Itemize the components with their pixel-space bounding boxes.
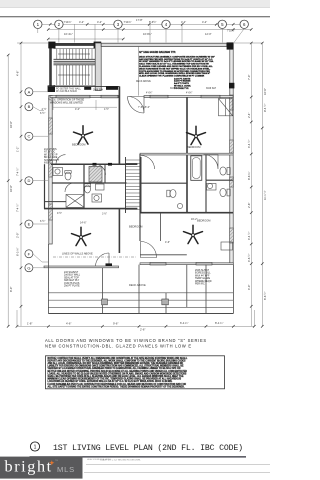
svg-text:6'-3 ⅛": 6'-3 ⅛" <box>16 248 20 256</box>
post top-left <box>48 42 55 49</box>
svg-text:C: C <box>27 134 30 139</box>
door arc at wall A <box>128 97 145 114</box>
bath hall wall x=105 <box>104 164 106 183</box>
svg-text:7'10⅞": 7'10⅞" <box>124 20 132 24</box>
svg-text:4'-6": 4'-6" <box>16 71 20 76</box>
left wall windows <box>49 118 53 220</box>
svg-text:7'-4 ½": 7'-4 ½" <box>16 204 20 212</box>
bath left closet wall <box>44 164 46 208</box>
svg-text:6'-8 ½": 6'-8 ½" <box>263 292 267 300</box>
left exterior wall <box>49 96 52 245</box>
svg-text:2846 SLH: 2846 SLH <box>93 90 104 92</box>
toilet 2 <box>84 184 90 193</box>
wall y=154 right <box>140 153 233 155</box>
svg-text:1: 1 <box>34 444 37 450</box>
deck horizontals <box>48 299 233 301</box>
post stair bottom-left <box>48 85 55 92</box>
svg-text:DECK ABOVE: DECK ABOVE <box>136 80 151 83</box>
grid bubble 5 <box>218 20 226 28</box>
svg-text:W/ 2x10 BLK SOLID: W/ 2x10 BLK SOLID <box>56 91 77 93</box>
svg-text:A: A <box>28 89 31 94</box>
post top-right <box>227 42 234 49</box>
svg-text:14'-6": 14'-6" <box>80 222 86 225</box>
bath door arc 1 <box>95 164 106 175</box>
svg-text:6 ½": 6 ½" <box>40 219 45 223</box>
svg-text:4'-2": 4'-2" <box>97 20 102 24</box>
wall y=267 left segment <box>44 266 119 268</box>
svg-text:7'-4 ½": 7'-4 ½" <box>16 168 20 176</box>
svg-text:4'-2": 4'-2" <box>181 20 186 24</box>
svg-text:LIABILITY FOR ERRORS OR OMISSI: LIABILITY FOR ERRORS OR OMISSIONS ONCE C… <box>48 365 185 368</box>
svg-text:10'-6": 10'-6" <box>263 88 267 95</box>
svg-text:ALL SITE SAFETY DURING THE ENT: ALL SITE SAFETY DURING THE ENTIRE CONSTR… <box>48 385 185 388</box>
svg-text:FLOOR ASSEMBLIES PER PLAN. CON: FLOOR ASSEMBLIES PER PLAN. CONTRACTOR RE… <box>48 383 187 386</box>
bath top wall y=164 <box>51 163 137 165</box>
svg-text:8'-4 ¾": 8'-4 ¾" <box>215 321 223 325</box>
stair up arrow <box>58 54 90 75</box>
text block lower left <box>64 271 81 288</box>
wall A left segment <box>50 96 119 98</box>
grid bubble F <box>25 250 48 262</box>
toilet 4 <box>220 188 230 196</box>
text block lower right <box>195 269 212 286</box>
stair treads lower run <box>54 65 96 86</box>
stair landing <box>54 59 96 65</box>
fan bedroom 4 <box>184 225 203 243</box>
svg-text:NOTICE: CONTRACTOR SHALL VERIF: NOTICE: CONTRACTOR SHALL VERIFY ALL DIME… <box>48 357 189 360</box>
fan bedroom 3 <box>72 227 91 245</box>
svg-text:B: B <box>28 104 31 109</box>
title bubble <box>30 442 39 451</box>
deck area edge line <box>138 46 140 95</box>
closet divider <box>160 213 162 241</box>
door threshold blocks <box>84 87 91 90</box>
interior dim texts <box>42 106 198 244</box>
svg-text:4'-0¼": 4'-0¼" <box>186 92 193 95</box>
grid bubble 1 <box>34 20 42 28</box>
svg-text:2x6 PT PLATE: 2x6 PT PLATE <box>64 285 80 288</box>
shower with X <box>66 195 84 208</box>
svg-text:ALL DOORS AND WINDOWS TO BE V: ALL DOORS AND WINDOWS TO BE VIWINCO BRAN… <box>45 338 207 343</box>
svg-text:2'-6": 2'-6" <box>140 328 145 332</box>
left ticks <box>7 42 22 328</box>
svg-text:4 ½": 4 ½" <box>42 107 47 111</box>
svg-text:4'-4 ½": 4'-4 ½" <box>247 232 251 240</box>
bath center wall x=84 <box>83 164 85 208</box>
disclaimer box <box>46 356 225 389</box>
svg-text:PER IRC: PER IRC <box>195 283 205 286</box>
threshold blocks <box>106 263 113 266</box>
stair right wall <box>95 43 101 91</box>
svg-text:42" HIGH GUARD RAILINGS TYP.: 42" HIGH GUARD RAILINGS TYP. <box>139 51 176 54</box>
svg-text:MINIMUM CLEAR OPENING REQUIREM: MINIMUM CLEAR OPENING REQUIREMENTS OF TH… <box>48 378 182 381</box>
svg-text:AND ALL LOCAL ORDINANCES. DO N: AND ALL LOCAL ORDINANCES. DO NOT SCALE D… <box>48 362 184 365</box>
svg-text:16'-2": 16'-2" <box>191 218 197 221</box>
svg-text:4'-0": 4'-0" <box>247 285 251 290</box>
door arc bedroom3 <box>96 253 110 267</box>
footer rule 1 <box>86 464 270 466</box>
svg-text:4'-2": 4'-2" <box>79 20 84 24</box>
windows lower right wall <box>150 262 166 265</box>
windows in wall A <box>56 95 220 98</box>
toilet 1 <box>65 171 71 180</box>
svg-text:BEDROOM: BEDROOM <box>187 145 200 149</box>
svg-text:12'-0": 12'-0" <box>205 32 212 36</box>
svg-text:2'-8": 2'-8" <box>247 203 251 208</box>
svg-text:4'-0": 4'-0" <box>145 106 150 109</box>
bathtub <box>191 156 202 181</box>
svg-text:BETTER UNLESS NOTED OTHERWISE.: BETTER UNLESS NOTED OTHERWISE. PROVIDE S… <box>48 370 188 373</box>
svg-text:11'-1 ½": 11'-1 ½" <box>263 190 267 200</box>
svg-text:9'-6": 9'-6" <box>113 322 118 326</box>
vanity counters <box>53 168 63 176</box>
left rotated dim texts <box>9 71 20 292</box>
svg-text:LOCATIONS AS DEFINED BY CODE.: LOCATIONS AS DEFINED BY CODE. EXTERIOR W… <box>48 380 173 383</box>
hall bath wall <box>140 182 187 184</box>
grid bubble 6 <box>240 20 248 28</box>
svg-text:9'-4 ½": 9'-4 ½" <box>263 104 267 112</box>
wall y=264 right segment <box>140 263 233 265</box>
hall door arc <box>141 156 155 170</box>
grid bubble D <box>25 177 48 185</box>
post right wall mid <box>229 83 234 89</box>
top dimension baseline <box>42 24 251 39</box>
svg-text:CLEAR OPENING TYP. FLASHING CO: CLEAR OPENING TYP. FLASHING COMPATIBLE W… <box>139 75 205 78</box>
top exterior wall <box>101 43 227 46</box>
svg-text:TO CODE TYP.: TO CODE TYP. <box>174 88 189 90</box>
svg-text:3 ½": 3 ½" <box>102 212 107 216</box>
svg-text:LOADS. ALL HEADERS TO BE (2) 2: LOADS. ALL HEADERS TO BE (2) 2x10 UNLESS… <box>48 372 187 375</box>
sink 2 <box>94 195 99 200</box>
svg-text:4'-0": 4'-0" <box>75 108 80 111</box>
grid bubble E <box>25 219 48 228</box>
grid bubble G <box>25 264 44 272</box>
bright MLS logo box <box>0 457 83 479</box>
grid bubble A <box>25 88 48 96</box>
svg-text:16'-4¼": 16'-4¼" <box>64 32 73 36</box>
grid bubble 4 <box>162 20 170 28</box>
orange spark <box>49 460 54 465</box>
svg-text:4'-6": 4'-6" <box>165 241 170 244</box>
deck verticals <box>48 244 233 314</box>
svg-text:MLS: MLS <box>57 465 75 474</box>
svg-text:1ST LIVING LEVEL PLAN (2ND FL.: 1ST LIVING LEVEL PLAN (2ND FL. IBC CODE) <box>53 443 243 453</box>
wall y=212.7 lower right <box>140 212 233 214</box>
svg-text:6 ½": 6 ½" <box>40 111 45 115</box>
top gray band <box>0 0 270 8</box>
closet wall lower mid <box>140 254 187 256</box>
svg-text:6'-4 ¼": 6'-4 ¼" <box>180 321 188 325</box>
svg-text:4'-0¼": 4'-0¼" <box>146 92 153 95</box>
wall A right segment <box>144 96 233 98</box>
dim ticks top <box>47 23 253 40</box>
svg-text:4'-4 ½": 4'-4 ½" <box>247 140 251 148</box>
svg-text:16'-8": 16'-8" <box>9 185 13 192</box>
text block left mid <box>44 148 60 165</box>
extension drops <box>17 310 254 326</box>
svg-text:4 ½": 4 ½" <box>104 107 109 111</box>
dresser lower-right <box>221 242 233 250</box>
deck posts <box>102 299 108 305</box>
bath mid wall y=183 <box>52 182 127 184</box>
bath wall y=201 <box>45 201 67 203</box>
svg-text:E: E <box>28 222 31 227</box>
svg-text:G: G <box>27 265 30 270</box>
svg-text:4'-6 ½": 4'-6 ½" <box>247 254 251 262</box>
stair left wall <box>49 43 52 92</box>
svg-text:9 ½": 9 ½" <box>57 211 62 215</box>
post stair top-right <box>94 42 102 49</box>
svg-text:BEDROOM: BEDROOM <box>197 219 210 223</box>
sink rect bath 2 <box>96 184 105 190</box>
corridor wall x=140 <box>139 154 141 213</box>
grid drop lines <box>38 24 244 42</box>
svg-text:SHALL BE PROVIDED PER CODE IN: SHALL BE PROVIDED PER CODE IN ALL SLEEPI… <box>48 375 185 378</box>
svg-text:WINDOWS WILL BE LIMITED: WINDOWS WILL BE LIMITED <box>50 101 83 104</box>
svg-text:8'-0": 8'-0" <box>9 287 13 292</box>
svg-text:DECK ABOVE: DECK ABOVE <box>129 283 146 287</box>
svg-text:2'-4": 2'-4" <box>247 113 251 118</box>
toilet 3 <box>220 167 230 175</box>
top dimension texts <box>64 18 235 36</box>
sink 1 <box>55 169 60 174</box>
svg-text:BEDROOM: BEDROOM <box>129 225 142 229</box>
interior wall x=187 upper <box>186 97 188 213</box>
svg-text:7'10⅞": 7'10⅞" <box>64 20 72 24</box>
svg-text:NEW CONSTRUCTION-DBL. GLAZED P: NEW CONSTRUCTION-DBL. GLAZED PANELS WITH… <box>45 343 192 348</box>
right exterior wall <box>230 49 233 263</box>
title underline <box>30 456 247 458</box>
svg-text:VERIFIED BY A LICENSED STRUCTU: VERIFIED BY A LICENSED STRUCTURAL ENGINE… <box>48 367 181 370</box>
grid bubble 3 <box>114 20 122 28</box>
svg-text:1'-8": 1'-8" <box>27 322 32 326</box>
bath door arc 2 <box>65 183 74 192</box>
svg-text:2'-0": 2'-0" <box>16 233 20 238</box>
svg-text:7'-0": 7'-0" <box>247 75 251 80</box>
svg-text:3046 SLH: 3046 SLH <box>206 88 217 90</box>
washer dryer hatched <box>89 167 102 183</box>
right bath walls <box>205 155 207 180</box>
interior wall x=119 <box>118 86 120 164</box>
door arcs lower middle <box>141 242 157 258</box>
svg-text:TM: TM <box>55 460 58 462</box>
bath door arc 3 <box>56 155 66 165</box>
top border line <box>0 16 270 18</box>
grid bubble C <box>25 132 48 140</box>
grid bubble 2 <box>55 20 63 28</box>
svg-text:1'-2": 1'-2" <box>16 147 20 152</box>
stair treads upper run <box>54 49 96 59</box>
fan bedroom 1 <box>74 126 93 144</box>
svg-text:BEDROOM: BEDROOM <box>72 143 85 147</box>
stair top wall <box>49 43 100 46</box>
svg-text:17'-8": 17'-8" <box>136 18 143 22</box>
door jamb blocks bath <box>93 163 97 166</box>
footer rule 2 <box>84 472 270 474</box>
sink 3 <box>207 183 212 188</box>
svg-text:INSUL: INSUL <box>44 162 52 165</box>
right wall windows <box>230 95 234 243</box>
text block deck railing spec <box>139 51 215 90</box>
fan bedroom 2 <box>187 126 206 144</box>
bedroom1 dim line <box>53 100 117 110</box>
svg-text:16'-8": 16'-8" <box>9 121 13 128</box>
stair bottom wall line <box>48 85 120 87</box>
grid bubble B <box>25 103 45 115</box>
wall between lower bedrooms <box>118 209 120 253</box>
note window operation <box>48 99 84 105</box>
hall bath toilet <box>167 190 176 198</box>
svg-text:4'-6": 4'-6" <box>66 322 71 326</box>
closet top-right <box>219 99 233 116</box>
svg-text:LINES OF WALLS ABOVE: LINES OF WALLS ABOVE <box>62 252 93 256</box>
svg-text:REPORT ANY DISCREPANCIES TO TH: REPORT ANY DISCREPANCIES TO THE DESIGNER… <box>48 359 186 362</box>
svg-text:8'-8 ¾": 8'-8 ¾" <box>247 172 251 180</box>
svg-text:4'-2": 4'-2" <box>202 20 207 24</box>
hall bath sink <box>177 203 182 208</box>
svg-text:HIGH SOUND THE LEVEL: HIGH SOUND THE LEVEL <box>87 459 112 461</box>
svg-text:bright: bright <box>5 457 53 475</box>
vanity right bath <box>207 184 217 191</box>
bath bottom wall y=208 <box>44 208 137 210</box>
svg-text:16'-8¾": 16'-8¾" <box>143 32 152 36</box>
svg-text:D: D <box>27 178 30 183</box>
